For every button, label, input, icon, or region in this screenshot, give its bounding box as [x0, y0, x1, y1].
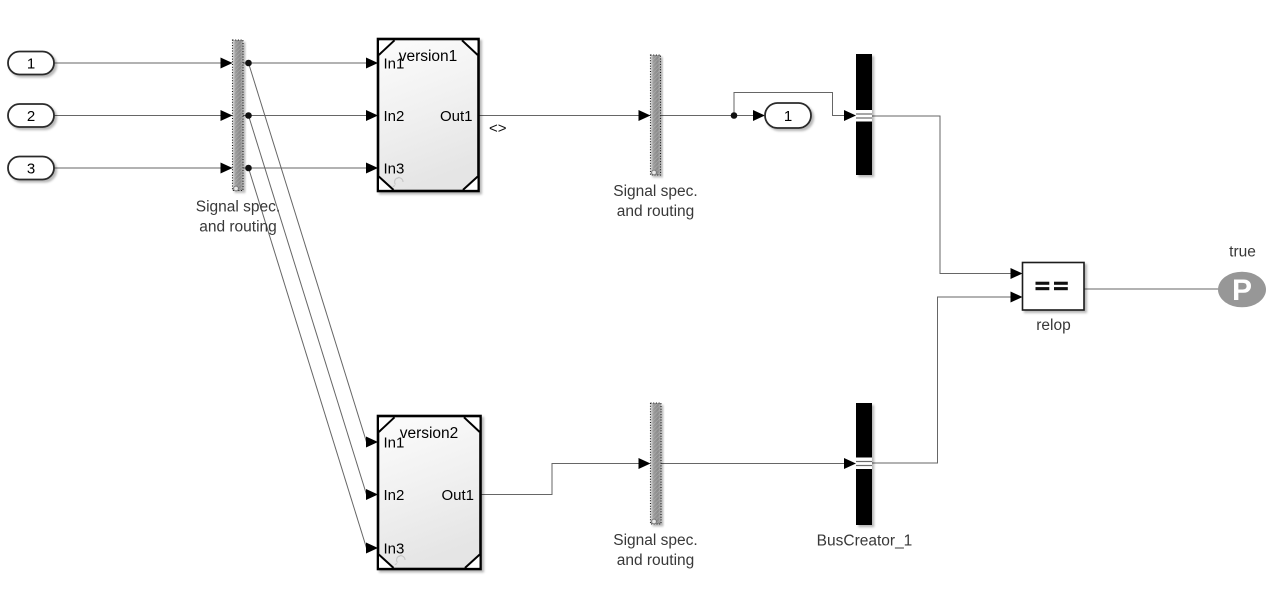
wire inport1 to SignalSpec1	[54, 62, 232, 64]
subsystem version1	[378, 39, 479, 191]
svg-text:3: 3	[27, 161, 35, 178]
arrowhead into version1 In3	[366, 163, 378, 174]
svg-text:version2: version2	[400, 425, 459, 442]
svg-text:Signal spec.: Signal spec.	[196, 199, 280, 216]
svg-text:1: 1	[784, 108, 792, 125]
svg-text:relop: relop	[1036, 317, 1070, 334]
version1 corner notch bottom-right	[463, 177, 478, 190]
svg-text:Signal spec.: Signal spec.	[613, 183, 697, 200]
wire SignalSpec1 to version1 In3	[243, 167, 378, 169]
arrowhead into BusCreator_1	[844, 458, 856, 469]
version2 variant badge	[395, 555, 405, 565]
arrowhead into version2 In2	[366, 489, 378, 500]
version2 corner notch bottom-right	[465, 555, 480, 568]
arrowhead into SignalSpec1 row2	[221, 110, 233, 121]
arrowhead into version2 In1	[366, 437, 378, 448]
arrowhead into relop in2	[1011, 292, 1023, 303]
wire junction bypass to BusCreator top	[734, 93, 845, 116]
arrowhead into SignalSpec3	[639, 458, 651, 469]
wire BusCreator_1 to relop in2	[872, 297, 1011, 463]
signal spec 3 badge circle	[652, 519, 657, 524]
version1 corner notch top-right	[462, 41, 478, 56]
inport 2	[8, 104, 54, 127]
version1 corner notch top-left	[379, 41, 395, 56]
svg-text:In3: In3	[384, 541, 405, 558]
svg-text:In1: In1	[384, 56, 405, 73]
wire version2 Out1 to SignalSpec3	[481, 464, 640, 495]
wire SignalSpec2 to outport and junction	[661, 115, 754, 117]
signal specification block 1	[233, 40, 244, 191]
arrowhead into SignalSpec2	[639, 110, 651, 121]
bus creator top	[856, 54, 872, 175]
wire inport2 to SignalSpec1	[54, 115, 232, 117]
signal specification block 3	[651, 403, 662, 524]
wire SignalSpec1 to version1 In1	[243, 62, 378, 64]
arrowhead into version2 In3	[366, 543, 378, 554]
signal specification block 2	[651, 55, 661, 175]
outport 1	[765, 103, 811, 128]
svg-text:In2: In2	[384, 108, 405, 125]
relop block	[1023, 263, 1085, 311]
wire branch2 diagonal to version2 In2	[249, 116, 367, 495]
wire SignalSpec1 to version1 In2	[243, 115, 378, 117]
svg-text:In1: In1	[384, 435, 405, 452]
arrowhead into relop in1	[1011, 268, 1023, 279]
svg-text:Out1: Out1	[440, 108, 473, 125]
junction node row3	[245, 165, 252, 172]
wire branch3 diagonal to version2 In3	[249, 168, 367, 548]
wire branch1 diagonal to version2 In1	[249, 63, 367, 442]
wire SignalSpec3 to BusCreator_1	[661, 463, 845, 465]
BusCreator_1 merge box	[856, 458, 872, 470]
arrowhead into version1 In1	[366, 58, 378, 69]
signal spec 1 badge circle	[234, 186, 239, 191]
version1 corner notch bottom-left	[379, 177, 394, 190]
svg-text:1: 1	[27, 56, 35, 73]
arrowhead into SignalSpec1 row1	[221, 58, 233, 69]
version2 corner notch top-right	[464, 418, 480, 433]
version2 corner notch bottom-left	[379, 555, 394, 568]
subsystem version2	[378, 416, 481, 569]
arrowhead into version1 In2	[366, 110, 378, 121]
wire inport3 to SignalSpec1	[54, 167, 232, 169]
arrowhead into BusCreator top	[844, 110, 856, 121]
version1 variant badge	[393, 177, 403, 187]
inport 3	[8, 157, 54, 180]
inport 1	[8, 52, 54, 75]
svg-text:2: 2	[27, 108, 35, 125]
wire BusCreator top to relop in1	[872, 116, 1011, 274]
svg-text:P: P	[1232, 274, 1252, 307]
svg-text:BusCreator_1: BusCreator_1	[817, 533, 913, 550]
relop == glyph	[1036, 282, 1068, 291]
junction node row1	[245, 60, 252, 67]
probe P	[1218, 272, 1266, 308]
svg-text:and routing: and routing	[617, 203, 695, 220]
signal spec 2 badge circle	[652, 170, 657, 175]
arrowhead into outport 1	[753, 110, 765, 121]
bus creator top merge box	[856, 110, 872, 122]
svg-text:and routing: and routing	[199, 219, 277, 236]
bus creator BusCreator_1	[856, 403, 872, 525]
svg-text:version1: version1	[399, 48, 458, 65]
svg-text:In2: In2	[384, 487, 405, 504]
version2 corner notch top-left	[379, 418, 395, 433]
svg-text:and routing: and routing	[617, 552, 695, 569]
svg-text:In3: In3	[384, 161, 405, 178]
arrowhead into SignalSpec1 row3	[221, 163, 233, 174]
svg-text:true: true	[1229, 244, 1256, 261]
wire version1 Out1 to SignalSpec2	[479, 115, 651, 117]
svg-text:Signal spec.: Signal spec.	[613, 532, 697, 549]
wire relop out to probe	[1084, 288, 1218, 290]
junction node after SignalSpec2	[731, 112, 738, 119]
svg-text:Out1: Out1	[441, 487, 474, 504]
svg-text:<>: <>	[489, 120, 507, 137]
junction node row2	[245, 112, 252, 119]
